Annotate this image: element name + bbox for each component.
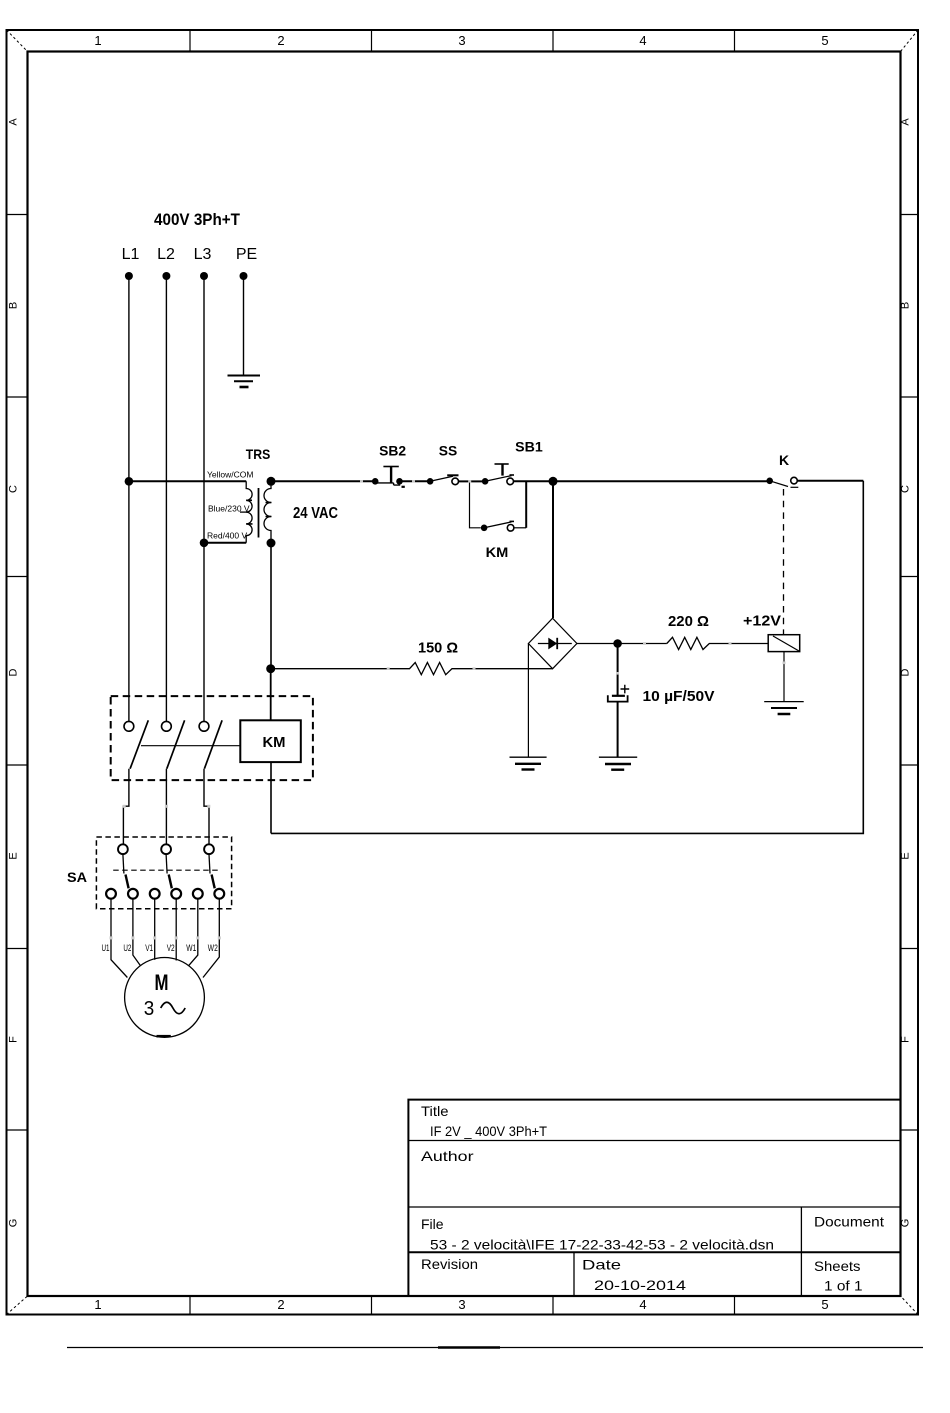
svg-text:Author: Author [421, 1148, 474, 1164]
right band dividers [901, 215, 919, 1131]
pin marks misc [360, 480, 786, 675]
svg-text:U1: U1 [102, 943, 110, 953]
wire KM aux branch right up [525, 481, 527, 528]
svg-text:SB1: SB1 [515, 438, 543, 454]
ground relay [764, 702, 804, 714]
svg-text:Sheets: Sheets [814, 1258, 861, 1274]
svg-text:G: G [900, 1219, 912, 1228]
svg-text:2: 2 [277, 33, 284, 48]
svg-text:20-10-2014: 20-10-2014 [594, 1277, 686, 1293]
SA top contact 1 [118, 844, 128, 854]
TRS 230V tap [240, 511, 247, 513]
wire coil to ground [783, 652, 785, 702]
SA top contact 2 [161, 844, 171, 854]
ground bridge [510, 757, 547, 769]
wire junction to KM coil [270, 669, 272, 721]
wire K to right corner [797, 480, 863, 482]
wire U1 to motor [111, 899, 127, 978]
terminal L1 [125, 272, 133, 280]
bridge rectifier [528, 618, 577, 669]
wire right side loop [271, 481, 863, 834]
wire TRS secondary down [270, 543, 272, 669]
motor shaft tick [157, 1035, 171, 1038]
pin marks jog [123, 805, 211, 808]
svg-text:5: 5 [821, 33, 828, 48]
svg-text:D: D [8, 668, 20, 676]
node TRS secondary top [267, 477, 276, 486]
node bridge output [613, 639, 622, 648]
svg-text:A: A [8, 118, 20, 126]
svg-text:1: 1 [94, 1297, 101, 1312]
svg-text:Revision: Revision [421, 1256, 478, 1272]
SA bottom contact U1 [106, 889, 116, 899]
wire V1 to motor [154, 899, 156, 960]
ground capacitor [599, 757, 637, 770]
svg-text:KM: KM [486, 544, 509, 560]
wire SS to SB1 [458, 480, 482, 482]
column numbers bottom [94, 1297, 828, 1312]
SA blade 3 [209, 854, 210, 873]
contactor coil KM box [240, 720, 300, 762]
svg-text:W1: W1 [186, 943, 196, 953]
SA bottom contact W2 [214, 889, 224, 899]
node supply junction [549, 477, 558, 486]
SA bottom contact V2 [171, 889, 181, 899]
wire SB1 to node [513, 480, 769, 482]
svg-text:1: 1 [94, 33, 101, 48]
SA bottom contact U2 [128, 889, 138, 899]
svg-text:5: 5 [821, 1297, 828, 1312]
transformer TRS secondary winding [264, 481, 271, 543]
svg-text:C: C [8, 485, 20, 493]
pushbutton SB2 [372, 467, 405, 487]
wire L3 vertical [203, 276, 205, 722]
svg-text:53 - 2 velocità\IFE 17-22-33-4: 53 - 2 velocità\IFE 17-22-33-42-53 - 2 v… [430, 1237, 774, 1253]
svg-text:Yellow/COM: Yellow/COM [207, 470, 253, 480]
wire bus L1 to TRS primary [129, 480, 246, 482]
svg-text:3: 3 [458, 33, 465, 48]
SA bottom contact W1 [193, 889, 203, 899]
transformer TRS core [258, 488, 260, 538]
row letters right [900, 118, 912, 1228]
svg-text:10 µF/50V: 10 µF/50V [643, 688, 715, 705]
SA top contact 3 [204, 844, 214, 854]
transformer TRS primary winding [246, 481, 252, 543]
contactor KM pole 3 [199, 720, 222, 768]
node L1 junction [125, 477, 134, 486]
svg-text:K: K [779, 452, 789, 468]
TRS secondary stubs [266, 503, 272, 517]
svg-text:220 Ω: 220 Ω [668, 613, 709, 630]
wire bridge right corner [577, 643, 667, 645]
wire W1 to motor [189, 899, 198, 966]
switch SS [427, 475, 459, 484]
wire L1 vertical [128, 276, 130, 722]
motor sine symbol [161, 1002, 186, 1014]
svg-text:Title: Title [421, 1103, 449, 1119]
terminal L3 [200, 272, 208, 280]
SA blade 1 [123, 854, 124, 873]
wire W2 to motor [203, 899, 219, 978]
svg-text:L2: L2 [157, 246, 175, 263]
contactor KM pole 1 [124, 720, 148, 768]
svg-text:D: D [900, 668, 912, 676]
wire capacitor to ground [617, 703, 619, 758]
wire L2 vertical [165, 276, 167, 722]
node low-volt junction [266, 664, 275, 673]
svg-text:4: 4 [639, 33, 646, 48]
svg-text:TRS: TRS [246, 446, 271, 462]
svg-text:F: F [900, 1036, 912, 1043]
switch SA dashed box [96, 837, 231, 909]
switch SA inner dashed line [113, 869, 219, 871]
svg-text:E: E [8, 852, 20, 859]
svg-text:E: E [900, 852, 912, 859]
svg-text:2: 2 [277, 1297, 284, 1312]
svg-text:Date: Date [582, 1257, 621, 1273]
svg-text:U2: U2 [123, 943, 131, 953]
title block frame [408, 1100, 900, 1296]
TRS primary tap stubs [246, 500, 252, 524]
svg-text:SB2: SB2 [379, 443, 406, 459]
contact KM aux [481, 521, 514, 531]
wire U2 to motor [133, 899, 141, 966]
svg-text:SS: SS [439, 443, 458, 459]
node TRS secondary bottom [267, 539, 276, 548]
ground PE [228, 376, 261, 388]
svg-text:A: A [900, 118, 912, 126]
wire bridge left corner to ground [527, 644, 529, 758]
svg-text:3: 3 [144, 998, 155, 1020]
SA bottom contact V1 [150, 889, 160, 899]
svg-text:L1: L1 [122, 246, 140, 263]
svg-text:L3: L3 [194, 246, 212, 263]
svg-text:150 Ω: 150 Ω [418, 639, 458, 656]
dashed link K to coil [783, 489, 785, 635]
wire pole2 down [165, 769, 167, 845]
wire pole1 down with jog [123, 769, 128, 845]
wire L3 to TRS 400V tap [204, 542, 246, 544]
top band dividers [190, 30, 735, 52]
wire SB2 to SS [403, 480, 431, 482]
left band dividers [7, 215, 28, 1131]
svg-text:M: M [155, 970, 169, 995]
wire pole3 down with jog [204, 769, 209, 845]
resistor 220 ohm [667, 637, 768, 649]
svg-text:+12V: +12V [743, 612, 781, 629]
terminal PE [240, 272, 248, 280]
contact KM aux right wire [514, 527, 526, 529]
pushbutton SB1 [482, 464, 514, 485]
contactor KM linkage line [141, 745, 240, 747]
row letters left [8, 118, 20, 1228]
svg-text:B: B [8, 302, 20, 309]
svg-text:G: G [8, 1219, 20, 1228]
contactor KM pole 2 [162, 720, 185, 768]
pin marks motor wires [110, 936, 221, 939]
column numbers top [94, 33, 828, 48]
SA blade 2 [166, 854, 167, 873]
svg-text:3: 3 [458, 1297, 465, 1312]
svg-text:KM: KM [263, 734, 286, 751]
wire supply node down to bridge [552, 481, 554, 618]
svg-text:Red/400 V: Red/400 V [207, 531, 247, 541]
svg-text:PE: PE [236, 246, 257, 263]
wire KM coil bottom to loop [270, 762, 272, 833]
svg-text:400V 3Ph+T: 400V 3Ph+T [154, 210, 241, 229]
node L3 junction [200, 539, 209, 548]
relay contact K [766, 477, 798, 487]
svg-text:SA: SA [67, 869, 87, 885]
capacitor 10uF/50V [608, 695, 628, 701]
contact KM aux branch left wire [470, 481, 481, 528]
relay coil K [768, 635, 800, 652]
svg-text:File: File [421, 1216, 444, 1232]
resistor 150 ohm [271, 663, 553, 675]
capacitor C plus sign [621, 685, 630, 694]
terminal L2 [162, 272, 170, 280]
bottom band dividers [190, 1296, 735, 1315]
svg-text:4: 4 [639, 1297, 646, 1312]
svg-text:F: F [8, 1036, 20, 1043]
wire node to capacitor [617, 644, 619, 696]
svg-text:C: C [900, 485, 912, 493]
wire PE vertical [243, 276, 245, 376]
svg-text:V1: V1 [145, 943, 153, 953]
svg-text:24 VAC: 24 VAC [293, 505, 338, 522]
wire V2 to motor [175, 899, 177, 961]
svg-text:W2: W2 [208, 943, 218, 953]
svg-text:Document: Document [814, 1214, 884, 1230]
bottom rule line [67, 1347, 923, 1349]
wire bus 24VAC [271, 480, 375, 482]
svg-text:IF 2V _ 400V 3Ph+T: IF 2V _ 400V 3Ph+T [430, 1123, 547, 1139]
svg-text:B: B [900, 302, 912, 309]
contactor KM dashed box [111, 696, 313, 780]
svg-text:V2: V2 [167, 943, 175, 953]
svg-text:1 of 1: 1 of 1 [824, 1278, 863, 1294]
motor M circle [125, 958, 205, 1038]
